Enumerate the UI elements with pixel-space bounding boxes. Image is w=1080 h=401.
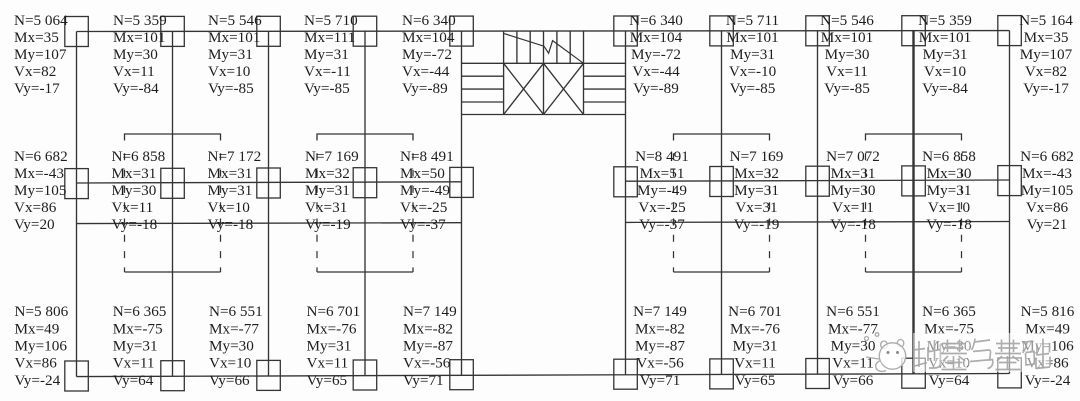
- column footprint square row 3 col 1: [65, 361, 89, 391]
- svg-text:N=5 710: N=5 710: [304, 12, 358, 29]
- wire middle beam line H3 left segment: [77, 182, 462, 183]
- svg-text:Vy=64: Vy=64: [929, 372, 970, 389]
- svg-text:My=31: My=31: [730, 46, 775, 63]
- svg-text:My=31: My=31: [733, 338, 778, 355]
- svg-text:Vy=65: Vy=65: [735, 372, 776, 389]
- svg-text:My=31: My=31: [305, 182, 350, 199]
- column footprint square row 2 col 4: [353, 168, 377, 198]
- node load label block band 2 column 6: [635, 148, 689, 233]
- footing bottom edge: [317, 271, 413, 273]
- footing hidden side (dashed) left at x=673.5: [673, 153, 675, 272]
- svg-text:Vy=66: Vy=66: [833, 372, 874, 389]
- svg-text:Mx=31: Mx=31: [208, 165, 253, 182]
- svg-text:Vx=86: Vx=86: [1026, 199, 1069, 216]
- svg-text:Mx=31: Mx=31: [112, 165, 157, 182]
- node load label block band 1 column 7: [726, 12, 779, 97]
- wire vertical grid line V7: [721, 31, 723, 375]
- svg-text:My=107: My=107: [14, 46, 67, 63]
- svg-text:Vy=-18: Vy=-18: [112, 216, 158, 233]
- svg-text:Vx=82: Vx=82: [1025, 63, 1067, 80]
- svg-text:Vy=65: Vy=65: [307, 372, 348, 389]
- svg-text:Vy=-84: Vy=-84: [922, 80, 968, 97]
- svg-text:Vx=-11: Vx=-11: [304, 63, 351, 80]
- footing bottom edge: [674, 271, 770, 273]
- svg-text:Mx=-82: Mx=-82: [635, 320, 685, 337]
- svg-text:My=30: My=30: [113, 46, 158, 63]
- staircase: inner right vertical wall: [583, 31, 585, 114]
- svg-text:Mx=101: Mx=101: [113, 29, 165, 46]
- wire vertical grid line V6: [625, 31, 627, 375]
- node load label block band 3 column 4: [307, 303, 361, 389]
- svg-text:My=31: My=31: [307, 338, 352, 355]
- svg-text:Vx=11: Vx=11: [112, 199, 154, 216]
- column footprint square row 1 col 5: [450, 16, 474, 46]
- svg-text:Vx=86: Vx=86: [14, 199, 57, 216]
- svg-text:Vx=-25: Vx=-25: [638, 199, 685, 216]
- svg-text:N=5 546: N=5 546: [208, 12, 262, 29]
- svg-text:N=8 491: N=8 491: [400, 148, 454, 165]
- svg-text:My=30: My=30: [831, 182, 876, 199]
- footing hidden side (dashed) left at x=865.5: [865, 153, 867, 272]
- svg-text:Vy=-85: Vy=-85: [304, 80, 350, 97]
- svg-text:Mx=51: Mx=51: [640, 165, 685, 182]
- column footprint square row 3 col 6: [614, 359, 638, 389]
- node load label block band 2 column 7: [730, 148, 784, 233]
- svg-text:Mx=35: Mx=35: [1024, 29, 1069, 46]
- svg-text:My=106: My=106: [15, 338, 68, 355]
- svg-text:Vy=-37: Vy=-37: [400, 216, 446, 233]
- wire middle beam line H3 right segment: [626, 180, 1010, 181]
- svg-text:Vy=-85: Vy=-85: [208, 80, 254, 97]
- svg-text:My=31: My=31: [927, 182, 972, 199]
- node load label block band 3 column 2: [113, 303, 167, 389]
- svg-text:Vx=10: Vx=10: [208, 199, 251, 216]
- svg-text:Mx=-77: Mx=-77: [828, 320, 878, 337]
- node load label block band 2 column 8: [826, 148, 880, 233]
- svg-text:N=5 546: N=5 546: [820, 12, 874, 29]
- svg-text:My=-72: My=-72: [631, 46, 681, 63]
- svg-text:N=5 806: N=5 806: [15, 303, 69, 320]
- svg-text:Mx=101: Mx=101: [726, 29, 778, 46]
- column footprint square row 1 col 8: [806, 16, 830, 46]
- svg-text:My=-87: My=-87: [635, 338, 685, 355]
- footing outline at column line V4: top edge with end ticks: [317, 134, 413, 141]
- svg-text:My=-72: My=-72: [402, 46, 452, 63]
- wire vertical grid line V3: [268, 31, 270, 376]
- node load label block band 3 column 3: [209, 303, 263, 389]
- svg-text:Vy=-18: Vy=-18: [830, 216, 876, 233]
- svg-text:My=31: My=31: [208, 46, 253, 63]
- svg-text:N=8 491: N=8 491: [635, 148, 689, 165]
- svg-text:Mx=50: Mx=50: [400, 165, 445, 182]
- svg-text:Vy=-17: Vy=-17: [14, 80, 60, 97]
- column footprint square row 3 col 3: [257, 360, 281, 390]
- svg-text:Vy=71: Vy=71: [640, 372, 681, 389]
- svg-text:Mx=-76: Mx=-76: [307, 320, 357, 337]
- svg-text:Vx=11: Vx=11: [734, 355, 776, 372]
- node load label block band 3 column 5: [403, 303, 457, 389]
- svg-text:My=-87: My=-87: [403, 338, 453, 355]
- svg-text:My=31: My=31: [304, 46, 349, 63]
- footing hidden side (dashed) right at x=961.5: [961, 153, 963, 272]
- svg-text:Vy=-18: Vy=-18: [208, 216, 254, 233]
- svg-text:N=6 682: N=6 682: [14, 148, 68, 165]
- svg-text:Mx=-82: Mx=-82: [403, 320, 453, 337]
- node load label block band 3 column 9: [922, 303, 976, 389]
- svg-text:Vx=10: Vx=10: [208, 63, 251, 80]
- node load label block band 1 column 9: [918, 12, 972, 97]
- svg-text:N=6 682: N=6 682: [1020, 148, 1074, 165]
- svg-text:N=5 711: N=5 711: [726, 12, 779, 29]
- column footprint square row 1 col 4: [353, 16, 377, 46]
- column footprint square row 2 col 1: [65, 169, 89, 199]
- column footprint square row 2 col 10: [998, 166, 1022, 196]
- svg-text:My=30: My=30: [112, 182, 157, 199]
- svg-text:Mx=49: Mx=49: [15, 320, 60, 337]
- staircase: left flight treads: [462, 75, 504, 77]
- svg-text:Vy=-37: Vy=-37: [639, 216, 685, 233]
- staircase: inner left vertical wall: [503, 31, 505, 114]
- svg-text:My=31: My=31: [923, 46, 968, 63]
- node load label block band 3 column 8: [826, 303, 880, 389]
- footing hidden side (dashed) right at x=220.5: [220, 153, 222, 272]
- svg-text:N=7 172: N=7 172: [208, 148, 262, 165]
- staircase: break (cut) line with zigzag: [504, 34, 583, 64]
- svg-text:N=6 701: N=6 701: [307, 303, 361, 320]
- node load label block band 1 column 10: [1019, 12, 1073, 97]
- svg-text:Vy=64: Vy=64: [113, 372, 154, 389]
- svg-text:N=6 551: N=6 551: [209, 303, 263, 320]
- node load label block band 2 column 3: [208, 148, 262, 233]
- node load label block band 3 column 6: [633, 303, 687, 389]
- svg-text:Mx=101: Mx=101: [208, 29, 260, 46]
- svg-text:Vx=11: Vx=11: [826, 63, 868, 80]
- svg-text:Mx=-75: Mx=-75: [113, 320, 163, 337]
- column footprint square row 1 col 3: [257, 16, 281, 46]
- svg-text:My=105: My=105: [1021, 182, 1073, 199]
- column footprint square row 3 col 10: [998, 358, 1022, 388]
- wire vertical grid line V8: [817, 31, 819, 374]
- column footprint square row 3 col 8: [806, 359, 830, 389]
- svg-text:Vx=82: Vx=82: [14, 63, 56, 80]
- svg-text:Vy=-19: Vy=-19: [734, 216, 780, 233]
- svg-text:Vy=-85: Vy=-85: [730, 80, 776, 97]
- svg-text:Mx=104: Mx=104: [630, 29, 683, 46]
- node load label block band 2 column 2: [112, 148, 166, 233]
- svg-text:Vy=-17: Vy=-17: [1023, 80, 1069, 97]
- svg-text:Vx=11: Vx=11: [113, 355, 155, 372]
- node load label block band 1 column 1: [14, 12, 68, 97]
- svg-text:My=31: My=31: [208, 182, 253, 199]
- svg-text:N=6 365: N=6 365: [113, 303, 167, 320]
- svg-text:My=31: My=31: [113, 338, 158, 355]
- node load label block band 3 column 7: [728, 303, 782, 389]
- svg-text:Vx=10: Vx=10: [209, 355, 252, 372]
- svg-text:Vy=-24: Vy=-24: [1025, 372, 1071, 389]
- staircase: right flight treads: [584, 75, 626, 77]
- svg-text:My=30: My=30: [825, 46, 870, 63]
- svg-text:Vy=-18: Vy=-18: [926, 216, 972, 233]
- svg-text:N=6 365: N=6 365: [922, 303, 976, 320]
- footing hidden side (dashed) left at x=317.0: [316, 153, 318, 272]
- wire vertical grid line V10: [1009, 31, 1011, 374]
- column footprint square row 2 col 2: [161, 168, 185, 198]
- column footprint square row 3 col 2: [161, 361, 185, 391]
- column footprint square row 1 col 7: [710, 16, 734, 46]
- staircase: center vertical of cross: [543, 63, 545, 114]
- staircase: cross diagonal right X: [544, 63, 584, 114]
- svg-text:My=30: My=30: [209, 338, 254, 355]
- svg-text:My=107: My=107: [1020, 46, 1073, 63]
- svg-text:N=7 149: N=7 149: [633, 303, 687, 320]
- svg-text:N=6 340: N=6 340: [402, 12, 456, 29]
- svg-text:Mx=111: Mx=111: [304, 29, 355, 46]
- svg-text:Vx=10: Vx=10: [928, 199, 971, 216]
- svg-text:N=7 072: N=7 072: [826, 148, 880, 165]
- svg-text:Mx=-43: Mx=-43: [14, 165, 64, 182]
- wire bottom beam line H6: [77, 374, 1010, 377]
- column footprint square row 3 col 9: [902, 358, 926, 388]
- wire vertical grid line V2: [172, 31, 174, 376]
- svg-text:Mx=32: Mx=32: [734, 165, 779, 182]
- staircase: bottom edge: [462, 114, 626, 116]
- svg-text:N=5 359: N=5 359: [113, 12, 167, 29]
- svg-text:Vx=31: Vx=31: [735, 199, 777, 216]
- node load label block band 1 column 6: [629, 12, 683, 97]
- staircase: mid horizontal line: [462, 62, 626, 64]
- svg-text:Vx=11: Vx=11: [307, 355, 349, 372]
- svg-text:Vy=71: Vy=71: [403, 372, 444, 389]
- footing hidden side (dashed) left at x=124.5: [124, 153, 126, 272]
- column footprint square row 2 col 8: [806, 166, 830, 196]
- watermark mascot face: [865, 333, 906, 372]
- node load label block band 1 column 3: [208, 12, 262, 97]
- column footprint square row 2 col 6: [614, 167, 638, 197]
- svg-text:Vy=-89: Vy=-89: [633, 80, 679, 97]
- svg-text:Vx=-56: Vx=-56: [403, 355, 451, 372]
- staircase: top flight vertical treads: [516, 31, 518, 63]
- column footprint square row 2 col 3: [257, 168, 281, 198]
- svg-text:Mx=32: Mx=32: [305, 165, 350, 182]
- svg-text:N=6 701: N=6 701: [728, 303, 782, 320]
- svg-text:My=105: My=105: [14, 182, 66, 199]
- column footprint square row 3 col 7: [710, 359, 734, 389]
- svg-text:My=-49: My=-49: [400, 182, 450, 199]
- svg-text:Vy=-85: Vy=-85: [824, 80, 870, 97]
- svg-text:Vx=-44: Vx=-44: [402, 63, 450, 80]
- wire top beam line H1: [77, 30, 1010, 33]
- svg-text:My=-49: My=-49: [637, 182, 687, 199]
- svg-text:N=6 340: N=6 340: [629, 12, 683, 29]
- column footprint square row 2 col 9: [902, 166, 926, 196]
- svg-text:Vx=11: Vx=11: [832, 199, 874, 216]
- node load label block band 2 column 5: [400, 148, 454, 233]
- column footprint square row 1 col 1: [65, 17, 89, 47]
- footing outline at column line V9: top edge with end ticks: [866, 134, 962, 141]
- column footprint square row 3 col 4: [353, 360, 377, 390]
- wire vertical grid line V4: [364, 31, 366, 375]
- node load label block band 2 column 1: [14, 148, 68, 233]
- svg-text:N=6 551: N=6 551: [826, 303, 880, 320]
- svg-text:N=7 169: N=7 169: [730, 148, 784, 165]
- svg-text:Vy=-89: Vy=-89: [402, 80, 448, 97]
- column footprint square row 3 col 5: [450, 360, 474, 390]
- svg-text:Vx=11: Vx=11: [113, 63, 155, 80]
- svg-text:Vy=66: Vy=66: [209, 372, 250, 389]
- wire vertical grid line V9: [912, 31, 914, 374]
- svg-text:Vx=-25: Vx=-25: [400, 199, 447, 216]
- svg-text:Mx=31: Mx=31: [831, 165, 876, 182]
- svg-text:Vx=86: Vx=86: [15, 355, 58, 372]
- svg-text:Vy=-19: Vy=-19: [305, 216, 351, 233]
- svg-text:N=5 816: N=5 816: [1021, 303, 1075, 320]
- column footprint square row 1 col 6: [614, 16, 638, 46]
- svg-text:N=7 169: N=7 169: [305, 148, 359, 165]
- svg-text:Mx=-43: Mx=-43: [1022, 165, 1072, 182]
- svg-text:N=5 064: N=5 064: [14, 12, 68, 29]
- column footprint square row 1 col 10: [998, 16, 1022, 46]
- svg-text:Mx=101: Mx=101: [919, 29, 971, 46]
- svg-text:Mx=101: Mx=101: [821, 29, 873, 46]
- column footprint square row 2 col 5: [450, 167, 474, 197]
- svg-text:Mx=-77: Mx=-77: [209, 320, 259, 337]
- svg-text:Vx=-10: Vx=-10: [729, 63, 777, 80]
- footing outline at column line V7: top edge with end ticks: [674, 134, 770, 141]
- staircase: cross diagonal left X: [504, 63, 544, 114]
- svg-text:N=5 359: N=5 359: [918, 12, 972, 29]
- node load label block band 3 column 1: [15, 303, 69, 389]
- wire middle line H4 left segment: [77, 222, 462, 225]
- node load label block band 2 column 9: [922, 148, 976, 233]
- node load label block band 1 column 2: [113, 12, 167, 97]
- svg-text:Mx=30: Mx=30: [927, 165, 972, 182]
- svg-text:My=30: My=30: [831, 338, 876, 355]
- node load label block band 3 column 10: [1021, 303, 1075, 389]
- footing hidden side (dashed) right at x=413.0: [412, 153, 414, 272]
- svg-text:Vy=20: Vy=20: [14, 216, 55, 233]
- node load label block band 1 column 4: [304, 12, 358, 97]
- svg-text:Vy=21: Vy=21: [1027, 216, 1068, 233]
- svg-text:N=6 858: N=6 858: [112, 148, 166, 165]
- svg-text:Vx=-56: Vx=-56: [636, 355, 684, 372]
- svg-text:N=6 858: N=6 858: [922, 148, 976, 165]
- watermark text 地基与基础 (drawn strokes): [913, 333, 1050, 372]
- svg-text:N=7 149: N=7 149: [403, 303, 457, 320]
- svg-text:Vy=-84: Vy=-84: [113, 80, 159, 97]
- wire vertical grid line V1: [76, 32, 78, 377]
- footing bottom edge: [866, 271, 962, 273]
- svg-text:Vy=-24: Vy=-24: [15, 372, 61, 389]
- footing bottom edge: [125, 271, 221, 273]
- svg-text:Mx=104: Mx=104: [402, 29, 455, 46]
- svg-text:Mx=-76: Mx=-76: [730, 320, 780, 337]
- svg-text:Vx=-44: Vx=-44: [632, 63, 680, 80]
- wire middle line H4 right segment: [626, 221, 1010, 224]
- column footprint square row 2 col 7: [710, 167, 734, 197]
- footing hidden side (dashed) right at x=769.5: [769, 153, 771, 272]
- svg-text:N=5 164: N=5 164: [1019, 12, 1073, 29]
- column footprint square row 1 col 2: [161, 16, 185, 46]
- column footprint square row 1 col 9: [902, 16, 926, 46]
- node load label block band 2 column 10: [1020, 148, 1074, 233]
- node load label block band 2 column 4: [305, 148, 359, 233]
- footing outline at column line V2: top edge with end ticks: [125, 134, 221, 141]
- svg-text:My=31: My=31: [734, 182, 779, 199]
- node load label block band 1 column 8: [820, 12, 874, 97]
- node load label block band 1 column 5: [402, 12, 456, 97]
- svg-text:Vx=10: Vx=10: [924, 63, 967, 80]
- svg-text:Vx=31: Vx=31: [305, 199, 347, 216]
- svg-text:Mx=35: Mx=35: [14, 29, 59, 46]
- wire vertical grid line V5: [461, 31, 463, 375]
